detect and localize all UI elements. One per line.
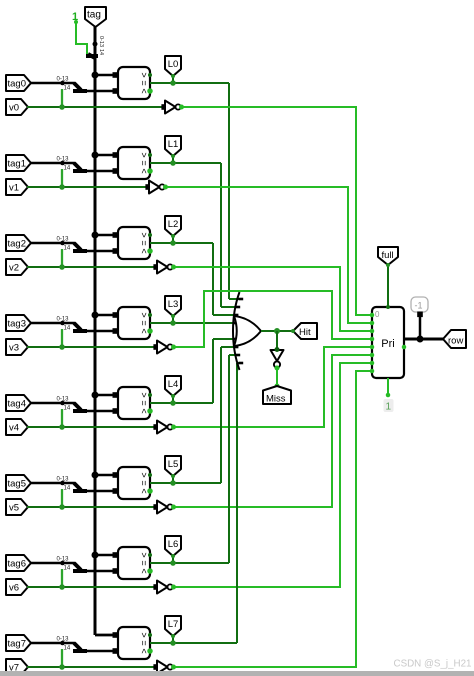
wire into OR input 7: [237, 362, 239, 364]
junction leg 0-13 on tag wire: [93, 42, 98, 47]
input pin v5: [6, 499, 28, 515]
output pin L6: [165, 536, 181, 556]
svg-text:>: >: [139, 232, 149, 237]
svg-text:>: >: [139, 552, 149, 557]
junction v3/riser: [59, 344, 65, 350]
svg-text:>: >: [139, 72, 149, 77]
bus junction row 4: [92, 392, 99, 399]
svg-text:14: 14: [98, 49, 104, 55]
svg-text:>: >: [139, 472, 149, 477]
bus junction row 6: [92, 552, 99, 559]
wire tag pin to splitter: [30, 562, 75, 565]
input pin v1: [6, 179, 28, 195]
bus elbow row7: [95, 634, 118, 637]
input pin tag5: [6, 475, 31, 491]
wire tag pin down: [94, 26, 97, 58]
wire = output row 0: [150, 82, 229, 84]
svg-text:L5: L5: [168, 459, 179, 470]
input pin v3: [6, 339, 28, 355]
wire = output row 7: [150, 642, 237, 644]
svg-text:v5: v5: [9, 503, 19, 514]
input pin tag0: [6, 75, 31, 91]
wire splitter to comparator B row 3: [85, 330, 118, 333]
svg-text:Miss: Miss: [266, 394, 286, 405]
wire v0 to inverter: [27, 106, 164, 108]
wire v5 to inverter: [27, 506, 156, 508]
comparator output dots row 6: [148, 553, 152, 557]
Pri input 2: [370, 329, 375, 334]
wire v6 to inverter: [27, 586, 156, 588]
comparator U7: [118, 627, 150, 659]
bus junction row 0: [92, 72, 99, 79]
svg-text:0-13: 0-13: [57, 637, 70, 643]
junction -1/row: [417, 336, 424, 343]
wire vertical to OR input 2: [212, 243, 214, 315]
Pri input 5: [370, 353, 375, 358]
wire inverted v7 to Pri: [173, 371, 371, 667]
bus junction row 5: [92, 472, 99, 479]
wire inverted v3 to Pri: [173, 291, 371, 347]
svg-text:Hit: Hit: [299, 327, 311, 338]
riser v1 to splitter leg 14: [61, 169, 63, 187]
output pin L3: [165, 296, 181, 316]
input pin tag1: [6, 155, 31, 171]
svg-text:full: full: [382, 250, 394, 261]
wire -1 to row bus: [419, 316, 422, 339]
splitter row 1: [60, 161, 65, 166]
wire junction to NOT (Miss): [276, 331, 278, 350]
riser v4 to splitter leg 14: [61, 409, 63, 427]
svg-text:>: >: [139, 312, 149, 317]
svg-text:=: =: [139, 480, 149, 485]
enable wire + constant 1 (bottom): [387, 378, 389, 395]
svg-text:=: =: [139, 640, 149, 645]
svg-text:L4: L4: [168, 379, 179, 390]
constant -1: [411, 297, 428, 312]
Pri input 3: [370, 337, 375, 342]
svg-text:0-13: 0-13: [57, 77, 70, 83]
bus junction row 2: [92, 232, 99, 239]
input pin v6: [6, 579, 28, 595]
junction L4: [170, 400, 176, 406]
15-bit tag bus: [94, 56, 97, 635]
output pin L1: [165, 136, 181, 156]
wire into OR input 1: [221, 306, 236, 308]
junction v7/riser: [59, 664, 65, 670]
wire = output row 5: [150, 482, 221, 484]
inverter (NOT) row 5: [153, 504, 159, 510]
Pri input 0: [370, 313, 375, 318]
svg-text:14: 14: [64, 166, 71, 172]
wire OR output to Hit: [261, 330, 293, 332]
output pin L2: [165, 216, 181, 236]
wire splitter to comparator B row 7: [85, 650, 118, 653]
wire v2 to inverter: [27, 266, 156, 268]
inverter (NOT) row 3: [153, 344, 159, 350]
input pin v2: [6, 259, 28, 275]
wire v4 to inverter: [27, 426, 156, 428]
svg-text:-1: -1: [415, 301, 423, 311]
riser v3 to splitter leg 14: [61, 329, 63, 347]
wire vertical to OR input 1: [220, 163, 222, 307]
input pin tag4: [6, 395, 31, 411]
svg-text:0-13: 0-13: [98, 36, 104, 47]
svg-text:14: 14: [64, 246, 71, 252]
svg-text:L3: L3: [168, 299, 179, 310]
inverter (NOT) for Miss: [271, 350, 284, 361]
wire splitter to comparator B row 5: [85, 490, 118, 493]
wire NOT to Miss pin: [276, 369, 278, 387]
svg-text:14: 14: [64, 406, 71, 412]
svg-text:0: 0: [375, 310, 380, 319]
svg-text:L0: L0: [168, 59, 179, 70]
comparator output dots row 7: [148, 633, 152, 637]
riser v7 to splitter leg 14: [61, 649, 63, 667]
svg-text:CSDN @S_j_H21: CSDN @S_j_H21: [394, 659, 472, 670]
svg-text:tag1: tag1: [8, 159, 27, 170]
comparator U6: [118, 547, 150, 579]
svg-text:>: >: [139, 152, 149, 157]
splitter row 2: [60, 241, 65, 246]
wire v3 to inverter: [27, 346, 156, 348]
junction L7: [170, 640, 176, 646]
wire inverted v6 to Pri: [173, 363, 371, 587]
comparator output dots row 3: [148, 313, 152, 317]
or input stub 4: [233, 338, 238, 341]
splitter row 4: [60, 401, 65, 406]
comparator U3: [118, 307, 150, 339]
inverter (NOT) row 6: [153, 584, 159, 590]
svg-text:v4: v4: [9, 423, 19, 434]
input pin tag7: [6, 635, 31, 651]
riser v5 to splitter leg 14: [61, 489, 63, 507]
wire = output row 6: [150, 562, 229, 564]
junction v4/riser: [59, 424, 65, 430]
comparator U4: [118, 387, 150, 419]
inverter (NOT) row 7: [153, 664, 159, 670]
svg-text:14: 14: [64, 646, 71, 652]
comparator output dots row 5: [148, 473, 152, 477]
svg-text:row: row: [448, 336, 463, 347]
splitter row 6: [60, 561, 65, 566]
wire into OR input 6: [229, 354, 236, 356]
svg-text:tag0: tag0: [8, 79, 27, 90]
svg-text:tag4: tag4: [8, 399, 27, 410]
output pin row: [443, 330, 466, 348]
comparator output dots row 2: [148, 233, 152, 237]
svg-text:v6: v6: [9, 583, 19, 594]
output pin L5: [165, 456, 181, 476]
svg-text:0-13: 0-13: [57, 557, 70, 563]
svg-text:14: 14: [64, 326, 71, 332]
Pri input 7: [370, 369, 375, 374]
wire tag pin to splitter: [30, 82, 75, 85]
or input stub 2: [234, 314, 239, 317]
wire bus to comparator A row 7: [95, 634, 118, 637]
wire Pri output to row: [404, 338, 443, 341]
riser v0 to splitter leg 14: [61, 89, 63, 107]
input pin v7: [6, 659, 28, 675]
svg-text:L7: L7: [168, 619, 179, 630]
wire bus to comparator A row 0: [95, 74, 118, 77]
svg-text:=: =: [139, 80, 149, 85]
junction v1/riser: [59, 184, 65, 190]
bottom bar: [0, 671, 474, 676]
wire full to Pri top: [387, 264, 389, 307]
svg-text:0-13: 0-13: [57, 237, 70, 243]
input pin v0: [6, 99, 28, 115]
comparator U0: [118, 67, 150, 99]
wire inverted v0 to Pri: [181, 107, 371, 315]
wire splitter to comparator B row 4: [85, 410, 118, 413]
wire tag pin to splitter: [30, 482, 75, 485]
wire = output row 1: [150, 162, 221, 164]
junction L3: [170, 320, 176, 326]
output pin full: [378, 247, 398, 265]
riser v2 to splitter leg 14: [61, 249, 63, 267]
svg-text:tag2: tag2: [8, 239, 27, 250]
svg-text:>: >: [139, 632, 149, 637]
comparator U1: [118, 147, 150, 179]
input pin tag6: [6, 555, 31, 571]
output pin L0: [165, 56, 181, 76]
svg-text:L2: L2: [168, 219, 179, 230]
junction L0: [170, 80, 176, 86]
junction L2: [170, 240, 176, 246]
wire bus to comparator A row 2: [95, 234, 118, 237]
svg-text:0-13: 0-13: [57, 397, 70, 403]
splitter row 5: [60, 481, 65, 486]
wire = output row 2: [150, 242, 213, 244]
wire splitter to comparator B row 6: [85, 570, 118, 573]
input pin tag3: [6, 315, 31, 331]
svg-text:tag3: tag3: [8, 319, 27, 330]
top splitter spine: [86, 54, 98, 58]
wire constant 1 to splitter leg 14: [76, 22, 87, 54]
splitter row 7: [60, 641, 65, 646]
or input stub 7: [239, 362, 244, 365]
wire bus to comparator A row 5: [95, 474, 118, 477]
svg-text:=: =: [139, 560, 149, 565]
svg-text:>: >: [139, 392, 149, 397]
wire vertical to OR input 5: [220, 347, 222, 483]
splitter row 0: [60, 81, 65, 86]
wire splitter to comparator B row 2: [85, 250, 118, 253]
bus junction row 1: [92, 152, 99, 159]
riser v6 to splitter leg 14: [61, 569, 63, 587]
svg-text:14: 14: [64, 86, 71, 92]
output pin L4: [165, 376, 181, 396]
svg-text:0-13: 0-13: [57, 477, 70, 483]
svg-text:0-13: 0-13: [57, 157, 70, 163]
junction v5/riser: [59, 504, 65, 510]
wire vertical to OR input 7: [236, 363, 238, 643]
or input stub 3: [233, 322, 238, 325]
comparator output dots row 0: [148, 73, 152, 77]
inverter (NOT) row 0: [161, 104, 167, 110]
comparator output dots row 4: [148, 393, 152, 397]
inverter (NOT) row 2: [153, 264, 159, 270]
svg-text:tag: tag: [87, 10, 101, 21]
comparator U2: [118, 227, 150, 259]
wire bus to comparator A row 3: [95, 314, 118, 317]
svg-text:v2: v2: [9, 263, 19, 274]
svg-text:14: 14: [64, 566, 71, 572]
wire tag pin to splitter: [30, 402, 75, 405]
svg-text:14: 14: [64, 486, 71, 492]
wire into OR input 2: [213, 314, 234, 316]
output pin Miss: [263, 386, 291, 404]
group signal dot: [402, 345, 407, 350]
svg-text:1: 1: [386, 402, 392, 413]
input pin v4: [6, 419, 28, 435]
wire bus to comparator A row 6: [95, 554, 118, 557]
wire tag pin to splitter: [30, 642, 75, 645]
junction Hit/Miss: [274, 328, 280, 334]
wire tag pin to splitter: [30, 322, 75, 325]
svg-text:v0: v0: [9, 103, 19, 114]
splitter row 3: [60, 321, 65, 326]
wire inverted v2 to Pri: [173, 267, 371, 331]
wire inverted v4 to Pri: [173, 347, 371, 427]
wire inverted v1 to Pri: [165, 187, 371, 323]
or input stub 0: [239, 298, 244, 301]
svg-text:tag6: tag6: [8, 559, 27, 570]
svg-text:=: =: [139, 240, 149, 245]
output pin L7: [165, 616, 181, 636]
wire v1 to inverter: [27, 186, 148, 188]
svg-text:tag5: tag5: [8, 479, 27, 490]
svg-text:=: =: [139, 320, 149, 325]
wire tag pin to splitter: [30, 242, 75, 245]
wire = output row 3: [150, 322, 233, 324]
svg-text:=: =: [139, 400, 149, 405]
junction v2/riser: [59, 264, 65, 270]
Pri input 4: [370, 345, 375, 350]
junction L5: [170, 480, 176, 486]
comparator output dots row 1: [148, 153, 152, 157]
wire into OR input 5: [221, 346, 234, 348]
junction L6: [170, 560, 176, 566]
wire bus to comparator A row 4: [95, 394, 118, 397]
svg-text:v1: v1: [9, 183, 19, 194]
wire inverted v5 to Pri: [173, 355, 371, 507]
junction v0/riser: [59, 104, 65, 110]
or input stub 1: [236, 306, 241, 309]
junction L1: [170, 160, 176, 166]
junction v6/riser: [59, 584, 65, 590]
wire vertical to OR input 6: [228, 355, 230, 563]
wire splitter to comparator B row 0: [85, 90, 118, 93]
input pin tag2: [6, 235, 31, 251]
input pin tag (top): [85, 7, 106, 27]
svg-text:v3: v3: [9, 343, 19, 354]
svg-text:L6: L6: [168, 539, 179, 550]
or input stub 5: [234, 346, 239, 349]
svg-text:0-13: 0-13: [57, 317, 70, 323]
wire into OR input 0: [229, 298, 239, 300]
wire = output row 4: [150, 402, 213, 404]
output pin Hit: [293, 323, 317, 339]
comparator U5: [118, 467, 150, 499]
wire into OR input 4: [213, 338, 233, 340]
bus junction row 3: [92, 312, 99, 319]
svg-text:L1: L1: [168, 139, 179, 150]
wire bus to comparator A row 1: [95, 154, 118, 157]
wire tag pin to splitter: [30, 162, 75, 165]
priority encoder Pri: [372, 307, 404, 378]
wire vertical to OR input 4: [212, 339, 214, 403]
wire vertical to OR input 0: [228, 83, 230, 299]
or input stub 6: [236, 354, 241, 357]
svg-text:tag7: tag7: [8, 639, 27, 650]
svg-text:Pri: Pri: [381, 338, 394, 350]
Pri input 6: [370, 361, 375, 366]
Pri input 1: [370, 321, 375, 326]
wire splitter to comparator B row 1: [85, 170, 118, 173]
inverter (NOT) row 1: [145, 184, 151, 190]
inverter (NOT) row 4: [153, 424, 159, 430]
wire v7 to inverter: [27, 666, 156, 668]
svg-text:=: =: [139, 160, 149, 165]
